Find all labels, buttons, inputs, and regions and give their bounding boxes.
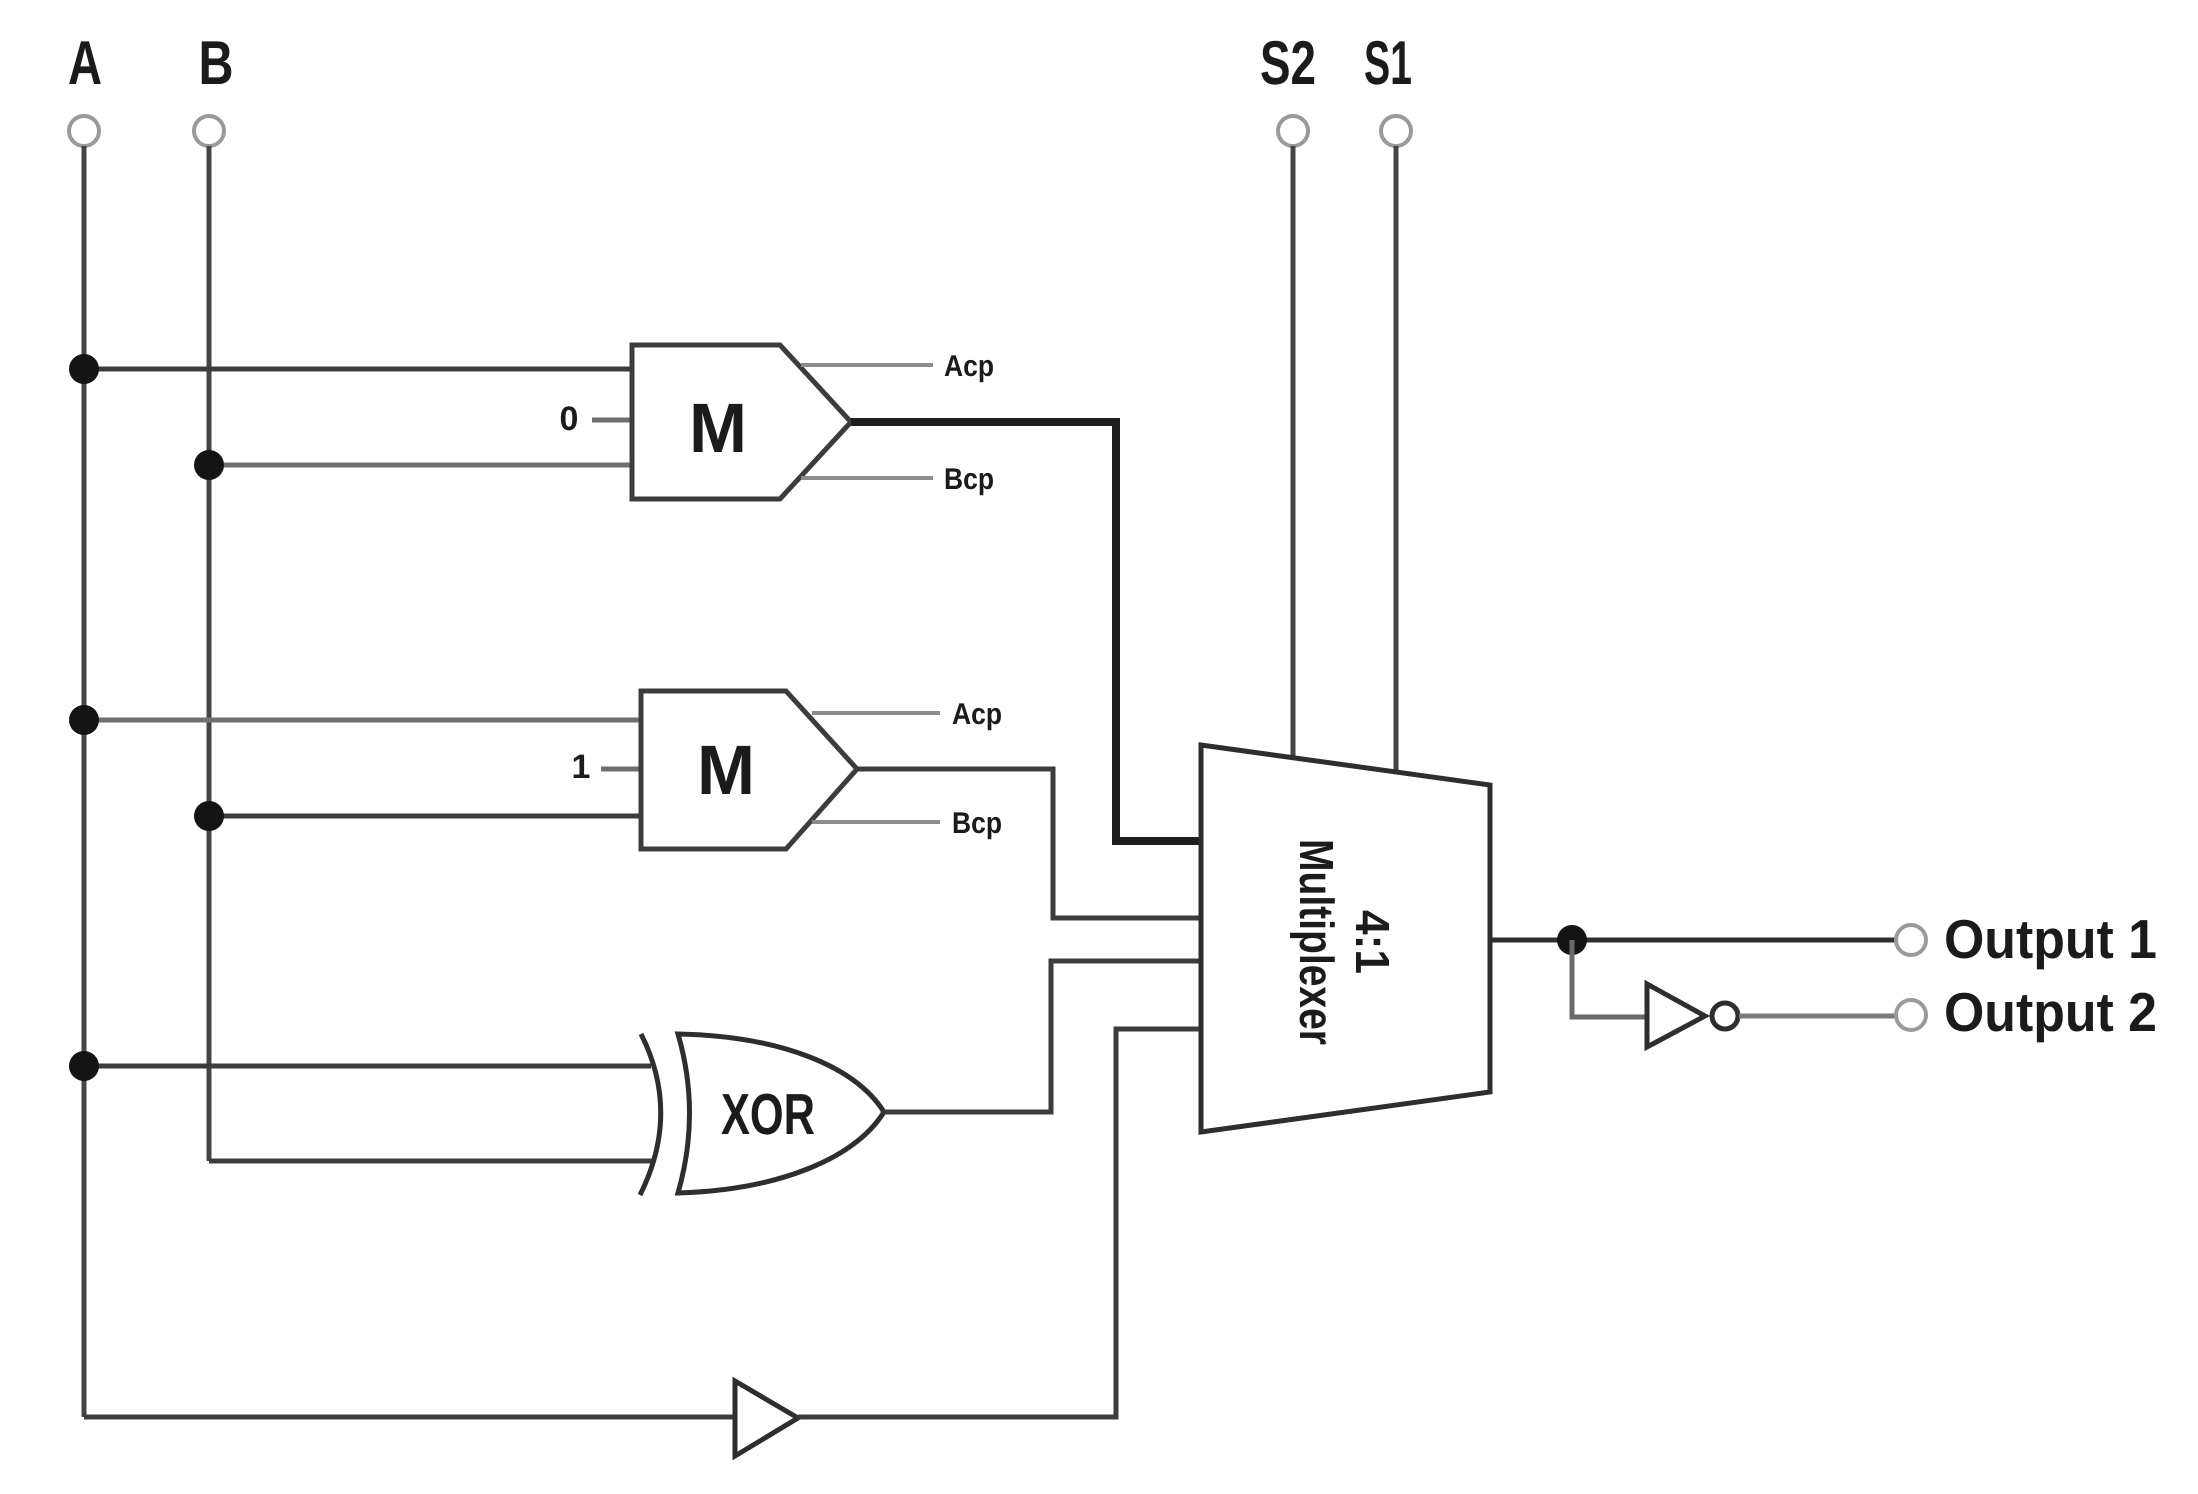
svg-text:B: B	[199, 29, 234, 98]
svg-text:M: M	[689, 389, 747, 467]
pin line Acp M2	[812, 711, 940, 715]
inverter U2	[1647, 984, 1705, 1047]
svg-text:Acp: Acp	[952, 698, 1002, 731]
wire S2 vertical	[1291, 146, 1296, 760]
svg-text:Output 1: Output 1	[1944, 908, 2157, 970]
junction A-M1	[69, 354, 99, 384]
wire 1 stub	[601, 767, 641, 772]
svg-text:S1: S1	[1364, 29, 1412, 98]
svg-text:Bcp: Bcp	[944, 463, 994, 496]
comparator M1	[632, 345, 851, 499]
wire B to M2	[209, 814, 641, 819]
pin line Acp M1	[801, 363, 933, 367]
inverter bubble	[1712, 1003, 1738, 1029]
svg-text:M: M	[697, 731, 755, 809]
comparator M2	[641, 691, 857, 849]
wire mux output	[1490, 938, 1896, 943]
svg-text:1: 1	[572, 748, 591, 786]
wire M1 output thick	[851, 422, 1201, 841]
wire B to XOR	[209, 1159, 653, 1164]
buffer	[735, 1381, 798, 1456]
svg-text:0: 0	[560, 400, 579, 438]
junction A-XOR	[69, 1051, 99, 1081]
wire A to M2	[84, 718, 641, 723]
pin line Bcp M1	[801, 476, 933, 480]
multiplexer U1	[1201, 745, 1490, 1132]
wire B to M1	[209, 463, 632, 468]
svg-text:Bcp: Bcp	[952, 807, 1002, 840]
wire A to M1	[84, 367, 632, 372]
junction B-M1	[194, 450, 224, 480]
terminal Output 1	[1896, 925, 1926, 955]
wire S1 vertical	[1394, 146, 1399, 774]
wire A vertical	[82, 146, 87, 1417]
wire B vertical	[207, 146, 212, 1161]
xor gate body	[678, 1034, 884, 1193]
svg-text:Acp: Acp	[944, 350, 994, 383]
wire 0 stub	[592, 418, 632, 423]
terminal Output 2	[1896, 1000, 1926, 1030]
svg-text:Multiplexer: Multiplexer	[1289, 839, 1342, 1045]
wire A to buffer	[84, 1415, 735, 1420]
terminal A	[69, 116, 99, 146]
junction B-M2	[194, 801, 224, 831]
junction output	[1557, 925, 1587, 955]
terminal S2	[1278, 116, 1308, 146]
svg-text:XOR: XOR	[721, 1082, 815, 1147]
terminal S1	[1381, 116, 1411, 146]
wire A to XOR	[84, 1064, 651, 1069]
wire inverter to output2	[1739, 1014, 1896, 1019]
svg-text:4:1: 4:1	[1345, 910, 1398, 974]
svg-text:Output 2: Output 2	[1944, 981, 2157, 1043]
wire buffer to mux	[798, 1029, 1201, 1417]
junction A-M2	[69, 705, 99, 735]
xor gate input arc	[640, 1034, 661, 1195]
pin line Bcp M2	[812, 820, 940, 824]
wire M2 output	[857, 769, 1201, 918]
svg-text:A: A	[68, 29, 102, 98]
wire to inverter	[1572, 940, 1647, 1017]
terminal B	[194, 116, 224, 146]
wire XOR output	[884, 961, 1201, 1112]
svg-text:S2: S2	[1260, 29, 1316, 98]
